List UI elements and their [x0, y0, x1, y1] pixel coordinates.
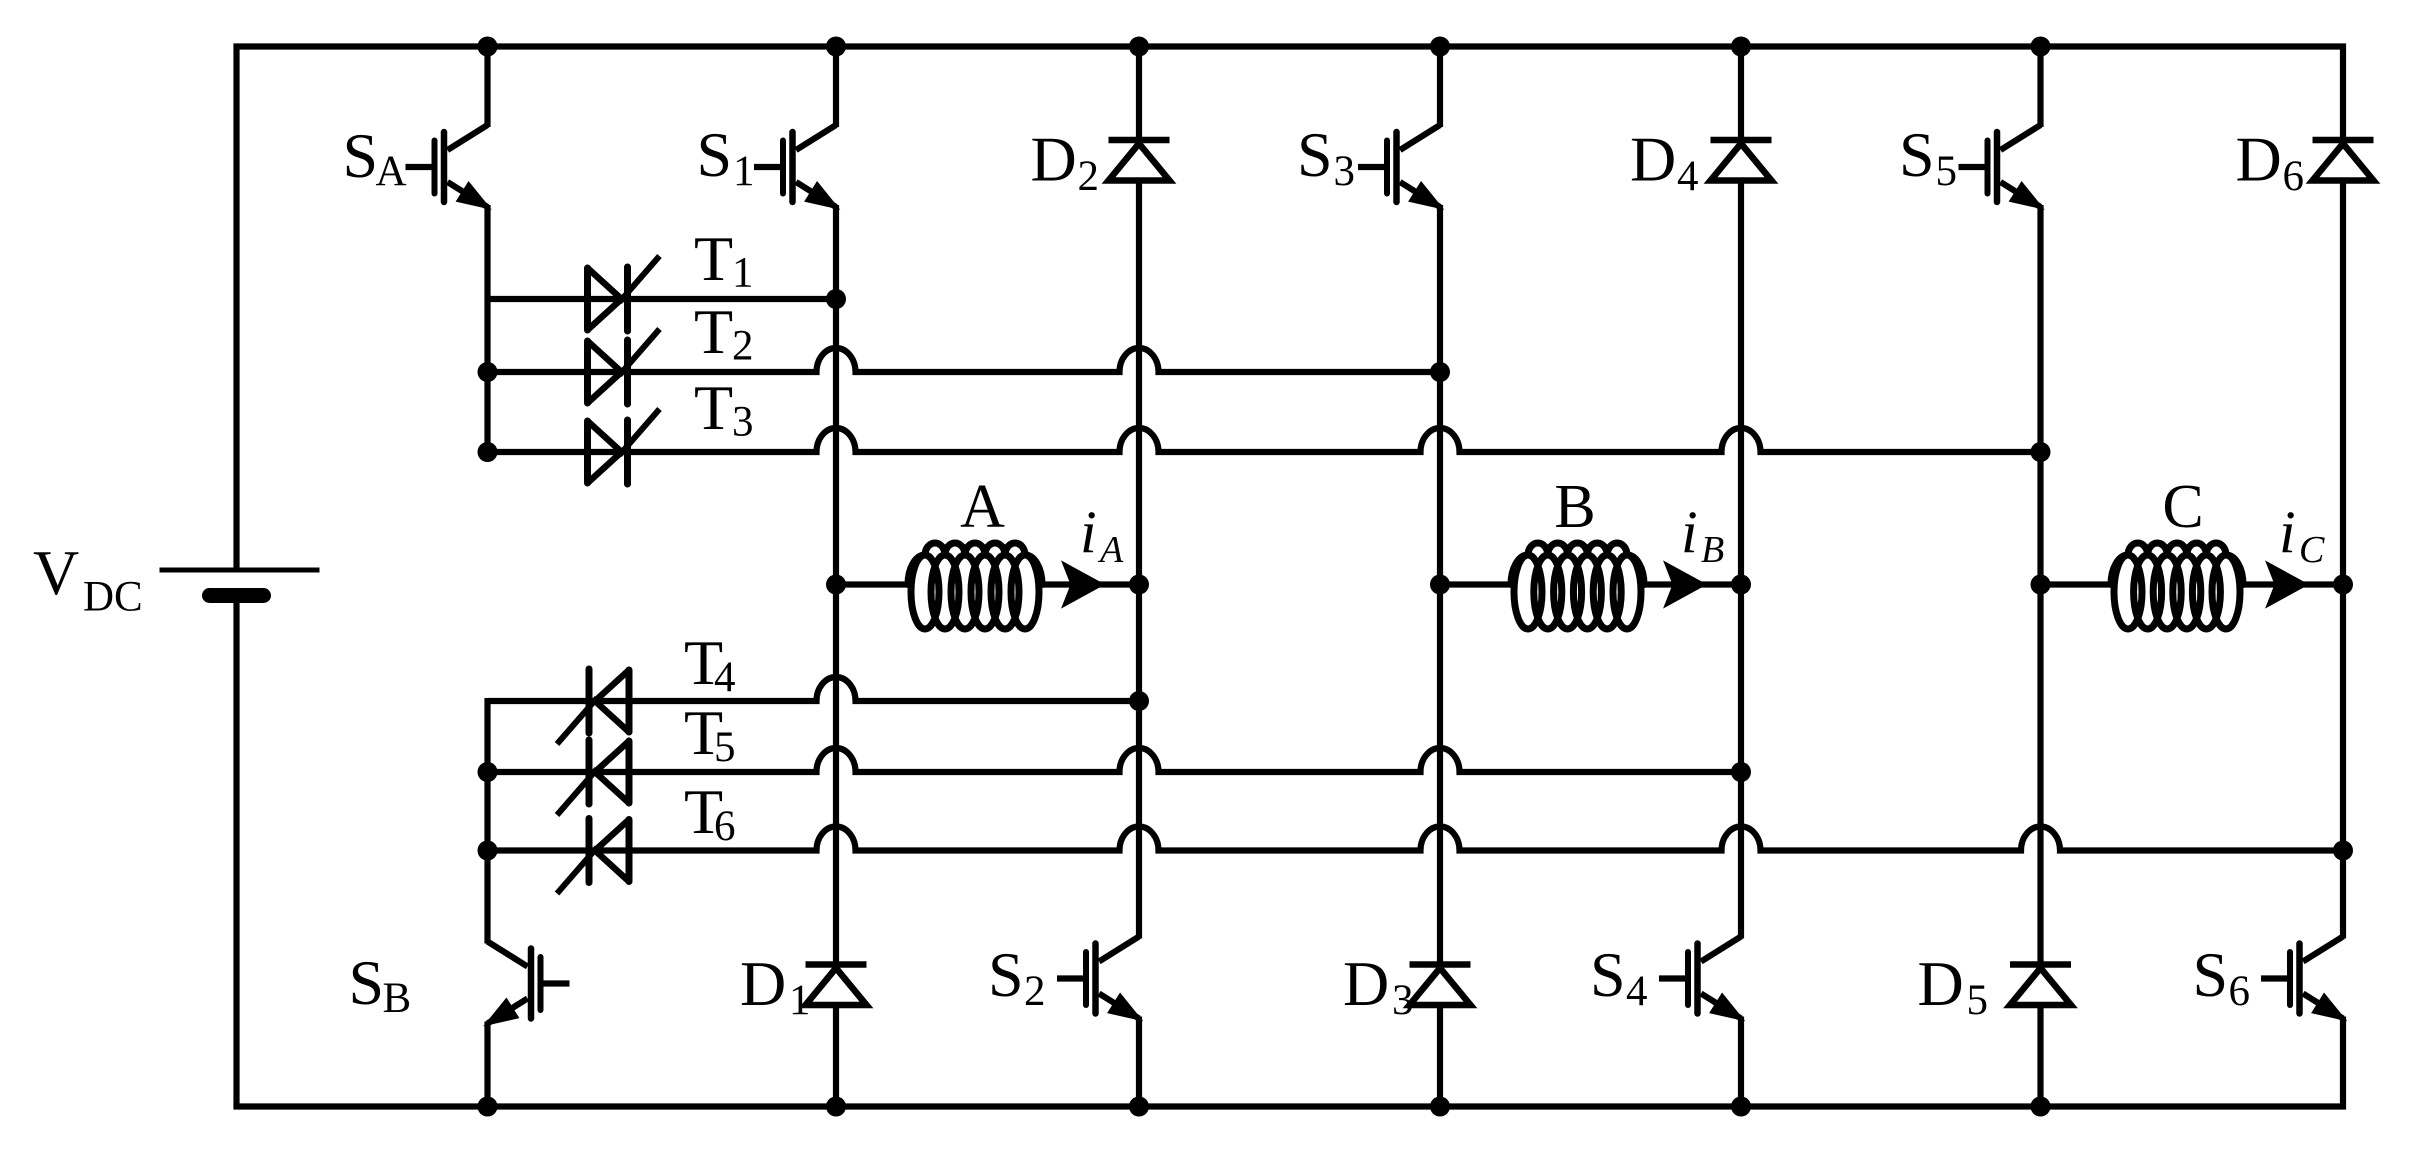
node phase A wire left [836, 581, 911, 587]
label D_4 [1630, 124, 1699, 201]
svg-text:2: 2 [1024, 968, 1046, 1015]
junction dot bus-T2 [478, 362, 498, 382]
svg-text:C: C [2299, 529, 2325, 571]
svg-text:4: 4 [1677, 153, 1699, 200]
wire D5 to bottom rail [2037, 1008, 2043, 1107]
label T_6 [684, 776, 736, 850]
junction dot T2-S3 leg [1430, 362, 1450, 382]
label T_3 [694, 372, 754, 446]
junction dot S4 bottom rail [1731, 1097, 1751, 1117]
junction dot phase A right [1129, 575, 1149, 595]
wire inductor C to node [2243, 581, 2343, 587]
diode D2 [1109, 140, 1170, 181]
transistor S5 (IGBT) [1959, 125, 2044, 209]
transistor S6 (IGBT) [2261, 937, 2346, 1021]
svg-text:DC: DC [83, 574, 143, 621]
svg-text:S: S [1297, 119, 1333, 190]
svg-text:D: D [740, 948, 786, 1019]
inductor phase A [908, 543, 1042, 629]
wire lower-left bus T4 row to S_B [484, 698, 490, 944]
junction dot T6-S6 leg [2333, 841, 2353, 861]
svg-text:5: 5 [1967, 977, 1989, 1024]
svg-text:2: 2 [1078, 153, 1100, 200]
wire row T1 [488, 296, 837, 302]
wire S4 leg phase B node to collector [1738, 585, 1744, 939]
junction dot phase B left [1430, 575, 1450, 595]
thyristor T6 [557, 819, 629, 894]
wire top DC+ rail [234, 43, 2347, 49]
svg-text:S: S [1590, 939, 1626, 1010]
wire D6 top corner to diode [2340, 44, 2346, 141]
wire S2 emitter to bottom rail [1136, 1017, 1142, 1107]
junction dot phase B right [1731, 575, 1751, 595]
label D_6 [2236, 124, 2305, 201]
arrow i_A [1062, 562, 1104, 608]
junction dot T3-S5 leg [2031, 442, 2051, 462]
label B [1554, 473, 1595, 541]
svg-text:3: 3 [1334, 148, 1356, 195]
junction dot D2 top rail [1129, 37, 1149, 57]
wire S6 leg phase C node to T6 row [2340, 585, 2346, 851]
label D_2 [1031, 124, 1100, 201]
junction dot S_A top rail [478, 37, 498, 57]
label S_A [343, 120, 407, 195]
wire S1-D1 leg phase A to D1 [833, 585, 839, 965]
svg-text:i: i [1080, 499, 1097, 565]
wire row T5 with hops [488, 748, 1742, 772]
wire S3 emitter down to phase B node [1437, 205, 1443, 585]
svg-text:T: T [694, 223, 733, 294]
svg-text:S: S [343, 120, 379, 191]
label S_3 [1297, 119, 1355, 195]
svg-text:6: 6 [2283, 153, 2305, 200]
thyristor T5 [557, 740, 629, 815]
transistor S3 (IGBT) [1358, 125, 1443, 209]
svg-text:B: B [1701, 529, 1724, 571]
diode D1 [806, 965, 867, 1006]
svg-text:S: S [349, 947, 385, 1018]
svg-text:A: A [1097, 529, 1124, 571]
thyristor T2 [588, 329, 660, 404]
label T_5 [684, 697, 736, 771]
diode D6 [2313, 140, 2374, 181]
label i_C [2279, 499, 2325, 571]
svg-text:S: S [1899, 119, 1935, 190]
svg-text:4: 4 [1626, 968, 1648, 1015]
svg-text:D: D [1918, 948, 1964, 1019]
label T_4 [684, 627, 736, 701]
diode D4 [1711, 140, 1772, 181]
diode D3 [1410, 965, 1471, 1006]
label D_5 [1918, 948, 1989, 1024]
junction dot phase A left [826, 575, 846, 595]
wire S_A emitter bus down to T3 row [484, 205, 490, 455]
label i_B [1681, 499, 1724, 571]
label S_6 [2193, 939, 2251, 1015]
junction dot S1 top rail [826, 37, 846, 57]
label S_5 [1899, 119, 1957, 195]
node phase C wire left [2041, 581, 2114, 587]
junction dot S5 top rail [2031, 37, 2051, 57]
svg-text:1: 1 [733, 148, 755, 195]
svg-text:4: 4 [714, 654, 736, 701]
wire S6 emitter to bottom rail corner [2340, 1017, 2346, 1110]
transistor S_B (IGBT mirrored) [485, 942, 570, 1026]
inductor phase B [1511, 543, 1644, 629]
wire S3 collector to top rail [1437, 47, 1443, 128]
junction dot D3 bottom rail [1430, 1097, 1450, 1117]
wire row T6 with hops [488, 827, 2344, 851]
junction dot T4-S2 leg [1129, 691, 1149, 711]
arrow i_C [2266, 562, 2308, 608]
wire S1 emitter down to phase A node [833, 205, 839, 585]
transistor S1 (IGBT) [754, 125, 839, 209]
wire bottom DC- rail [234, 1103, 2347, 1109]
label C [2162, 473, 2203, 541]
svg-text:S: S [988, 939, 1024, 1010]
wire S6 collector T6 to IGBT [2340, 851, 2346, 939]
wire S5 emitter down to phase C node [2037, 205, 2043, 585]
wire D6 down to phase C node [2340, 183, 2346, 585]
wire left vertical from VDC source to bottom rail [233, 603, 239, 1110]
svg-text:S: S [697, 119, 733, 190]
wire inductor A to node [1042, 581, 1139, 587]
wire S1 collector to top rail [833, 47, 839, 128]
svg-text:i: i [1681, 499, 1698, 565]
wire D2 top rail to diode [1136, 47, 1142, 141]
wire row T4 with hop [488, 677, 1140, 701]
svg-text:A: A [376, 148, 407, 195]
svg-text:D: D [1343, 948, 1389, 1019]
junction dot phase C right [2333, 575, 2353, 595]
svg-text:T: T [694, 296, 733, 367]
wire D4 down to phase B node [1738, 183, 1744, 585]
svg-text:6: 6 [714, 803, 736, 850]
node phase B wire left [1440, 581, 1513, 587]
label T_1 [694, 223, 754, 297]
wire inductor B to node [1644, 581, 1741, 587]
wire D1 to bottom rail [833, 1008, 839, 1107]
svg-text:3: 3 [1392, 977, 1414, 1024]
wire S_A collector to top rail [484, 47, 490, 128]
wire D2 down to phase A node [1136, 183, 1142, 585]
label S_4 [1590, 939, 1648, 1015]
thyristor T1 [588, 256, 660, 331]
wire row T2 with hops [488, 348, 1441, 372]
svg-text:D: D [1031, 124, 1077, 195]
label i_A [1080, 499, 1124, 571]
svg-text:5: 5 [714, 724, 736, 771]
wire S2 leg phase A node to collector [1136, 585, 1142, 939]
wire row T3 with hops [488, 428, 2041, 452]
transistor S2 (IGBT) [1057, 937, 1142, 1021]
svg-text:A: A [960, 473, 1005, 541]
junction dot D5 bottom rail [2031, 1097, 2051, 1117]
junction dot phase C left [2031, 575, 2051, 595]
transistor S4 (IGBT) [1659, 937, 1744, 1021]
thyristor T4 [557, 669, 629, 744]
junction dot S_B bottom rail [478, 1097, 498, 1117]
wire S5-D5 leg phase C to D5 [2037, 585, 2043, 965]
DC source V_DC battery [160, 570, 320, 596]
svg-text:D: D [2236, 124, 2282, 195]
svg-text:S: S [2193, 939, 2229, 1010]
label S_1 [697, 119, 755, 195]
svg-text:1: 1 [732, 250, 754, 297]
junction dot bus-T5 [478, 762, 498, 782]
wire S3-D3 leg phase B to D3 [1437, 585, 1443, 965]
label S_2 [988, 939, 1046, 1015]
diode D5 [2010, 965, 2071, 1006]
wire S_B emitter to bottom rail [484, 1022, 490, 1107]
label D_1 [740, 948, 811, 1024]
svg-text:C: C [2162, 473, 2203, 541]
label D_3 [1343, 948, 1414, 1024]
junction dot T1-S1 leg [826, 289, 846, 309]
svg-text:T: T [694, 372, 733, 443]
label V_DC [33, 537, 143, 621]
arrow i_B [1664, 562, 1706, 608]
junction dot S3 top rail [1430, 37, 1450, 57]
junction dot D1 bottom rail [826, 1097, 846, 1117]
svg-text:6: 6 [2229, 968, 2251, 1015]
wire D4 top rail to diode [1738, 47, 1744, 141]
svg-text:i: i [2279, 499, 2296, 565]
junction dot bus-T6 [478, 841, 498, 861]
svg-text:5: 5 [1936, 148, 1958, 195]
junction dot T5-S4 leg [1731, 762, 1751, 782]
svg-text:3: 3 [732, 399, 754, 446]
svg-text:D: D [1630, 124, 1676, 195]
junction dot D4 top rail [1731, 37, 1751, 57]
svg-text:B: B [383, 975, 412, 1022]
thyristor T3 [588, 409, 660, 484]
svg-text:V: V [33, 537, 79, 608]
wire left vertical from top rail to VDC source [233, 44, 239, 569]
wire D3 to bottom rail [1437, 1008, 1443, 1107]
junction dot S2 bottom rail [1129, 1097, 1149, 1117]
label A [960, 473, 1005, 541]
label T_2 [694, 296, 754, 370]
svg-text:1: 1 [789, 977, 811, 1024]
label S_B [349, 947, 412, 1022]
wire S5 collector to top rail [2037, 47, 2043, 128]
inductor phase C [2111, 543, 2243, 629]
junction dot bus-T3 [478, 442, 498, 462]
wire S4 emitter to bottom rail [1738, 1017, 1744, 1107]
svg-text:2: 2 [732, 323, 754, 370]
transistor S_A (IGBT) [406, 125, 491, 209]
svg-text:B: B [1554, 473, 1595, 541]
